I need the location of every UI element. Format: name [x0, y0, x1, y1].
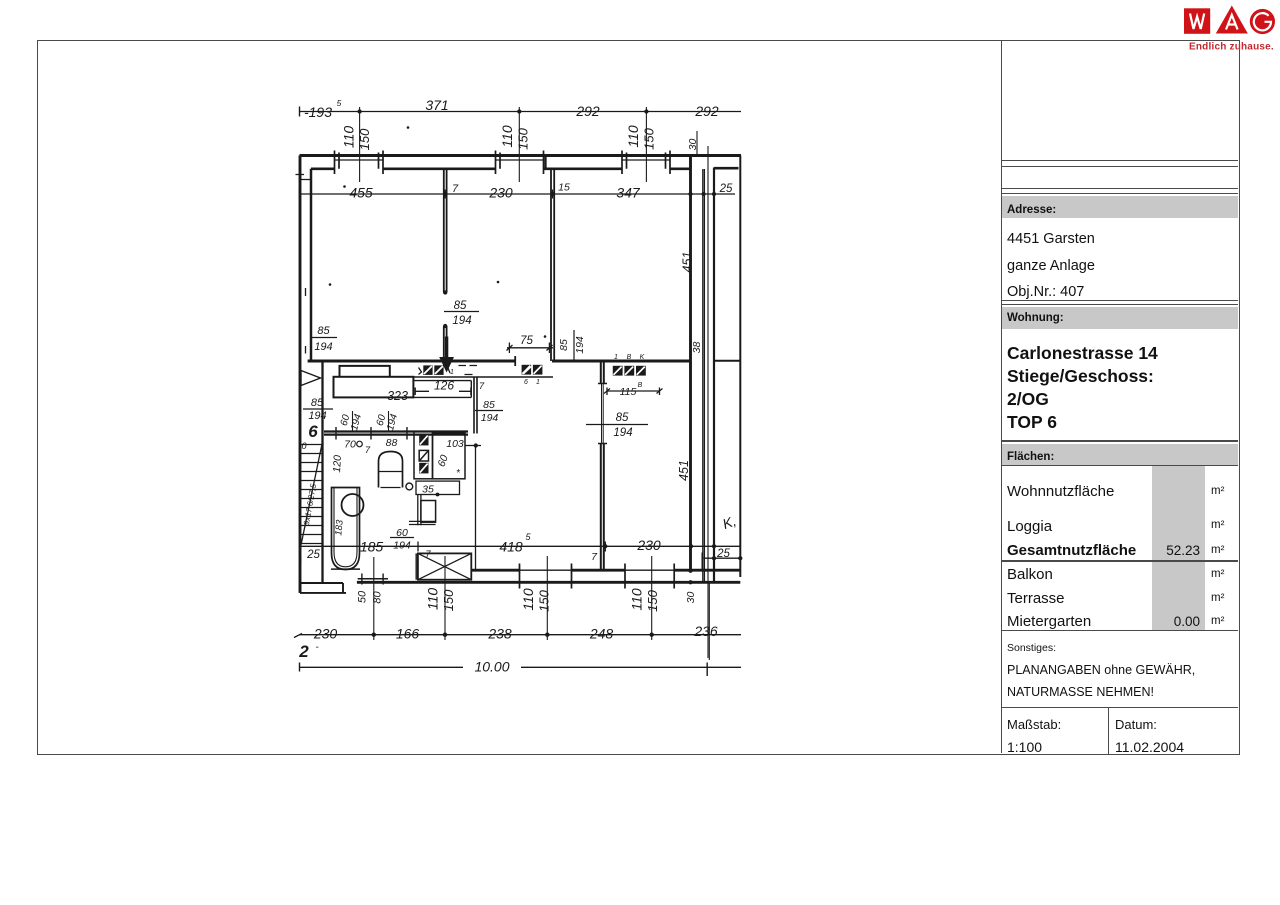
svg-text:451: 451	[681, 252, 695, 273]
svg-text:10.00: 10.00	[474, 659, 509, 675]
126 dim line	[415, 388, 471, 396]
svg-text:248: 248	[589, 626, 614, 642]
bottom window 5 ticks	[520, 564, 572, 589]
svg-text:50: 50	[357, 590, 369, 603]
svg-text:K,: K,	[720, 513, 738, 533]
living room left boundary thin	[475, 444, 477, 571]
corridor wall	[308, 360, 691, 363]
right wall 2	[713, 168, 715, 583]
svg-text:5: 5	[337, 98, 342, 108]
svg-text:126: 126	[434, 379, 454, 393]
wardrobe lower rectangle	[334, 377, 414, 398]
mid dim line (185/418/230)	[301, 545, 742, 547]
bottom total dim line (10.00)	[300, 666, 742, 668]
wardrobe upper rectangle	[340, 366, 390, 377]
svg-text:292: 292	[575, 103, 600, 119]
bottom-left wall block	[300, 583, 346, 593]
small 35 box	[416, 481, 460, 494]
svg-text:85: 85	[311, 397, 324, 409]
shaft trio C white diagonals	[614, 367, 645, 375]
svg-text:B: B	[627, 354, 632, 361]
top dim line dots	[360, 109, 647, 113]
svg-text:194: 194	[481, 412, 499, 424]
svg-text:70: 70	[344, 439, 356, 451]
fraction bar left pair2	[303, 408, 333, 410]
svg-text:230: 230	[636, 537, 661, 553]
window 2 sill line	[496, 159, 544, 161]
svg-text:371: 371	[425, 97, 448, 113]
right wall of rooms	[689, 156, 692, 571]
svg-text:6: 6	[308, 422, 318, 441]
svg-text:238: 238	[487, 626, 512, 642]
toilet crossbar	[379, 472, 403, 488]
svg-text:B: B	[638, 382, 643, 389]
bottom window 6 ticks	[625, 564, 674, 589]
WAG logo	[1180, 2, 1280, 54]
fraction bar wall A pair	[444, 311, 479, 313]
svg-text:15: 15	[558, 182, 570, 194]
Massstab / Datum	[1007, 717, 1061, 732]
bottom wall upper thick segments	[471, 569, 741, 572]
svg-text:0: 0	[301, 441, 306, 451]
fraction bar wall C pair	[586, 424, 648, 426]
shaft pair A white diagonals	[424, 366, 443, 374]
window 1 sill line	[335, 159, 384, 161]
shaft D square 1	[419, 435, 428, 446]
svg-text:230: 230	[313, 626, 338, 642]
shaft D square 2	[419, 450, 428, 461]
shaft pair A side marks	[419, 368, 451, 375]
bottom dim line 1	[300, 634, 742, 636]
Sonstiges section	[1007, 642, 1056, 654]
svg-text:418: 418	[499, 539, 523, 555]
door verticals below 35 box	[418, 495, 421, 526]
svg-text:110: 110	[425, 588, 441, 611]
bath lower walls	[331, 569, 388, 579]
door sill lines	[409, 521, 436, 524]
svg-text:-: -	[315, 642, 319, 653]
right 25 dim line	[704, 557, 741, 559]
Wohnung section	[1002, 307, 1238, 329]
svg-text:451: 451	[677, 460, 691, 481]
svg-text:150: 150	[516, 127, 531, 149]
svg-text:110: 110	[629, 588, 645, 611]
svg-text:1: 1	[614, 354, 618, 361]
svg-text:7: 7	[425, 549, 431, 560]
shaft column D rect	[414, 432, 433, 479]
interior dim line (455/230/347)	[300, 193, 736, 195]
bath top wall double line	[324, 432, 468, 435]
115 dim slashes	[604, 389, 663, 394]
svg-text:120: 120	[331, 455, 344, 473]
logo A triangle	[1216, 6, 1248, 34]
svg-text:85: 85	[454, 300, 467, 312]
top exterior wall inner line segments	[311, 167, 739, 170]
bath dot on 35 box	[436, 493, 440, 497]
bathtub inner line	[334, 488, 357, 567]
window 1 center dim vertical	[359, 107, 361, 182]
bath lower wall ticks	[362, 574, 383, 585]
sidebar header lines	[1001, 160, 1238, 161]
kitchen niche top line	[413, 376, 553, 378]
svg-text:88: 88	[386, 437, 398, 449]
svg-text:236: 236	[693, 623, 718, 639]
svg-text:1: 1	[536, 379, 540, 386]
loggia divider	[714, 360, 740, 362]
washbasin circle	[342, 494, 364, 516]
interior wall B (rooms 2/3)	[551, 169, 554, 361]
right double wall lines	[703, 169, 705, 582]
svg-text:347: 347	[616, 185, 641, 201]
left exterior wall outer	[299, 156, 302, 593]
outer drawing frame	[37, 40, 1240, 755]
svg-text:85: 85	[558, 339, 570, 351]
shaft D square 3	[419, 463, 428, 474]
mid dim tick at x418	[418, 542, 605, 552]
wall C door thin lines	[602, 384, 604, 444]
loggia outer edge	[739, 156, 741, 578]
svg-text:60: 60	[396, 527, 408, 539]
interior dim line dots	[445, 192, 714, 196]
door leaf rect	[421, 501, 436, 523]
svg-text:K: K	[640, 354, 645, 361]
svg-text:194: 194	[349, 412, 364, 431]
fraction bar tub 85-194 rotated pairs	[353, 411, 389, 432]
stair treads	[300, 445, 322, 544]
svg-text:230: 230	[488, 185, 513, 201]
svg-text:5: 5	[525, 532, 531, 542]
svg-text:194: 194	[308, 410, 326, 422]
bottom wall upper line	[471, 569, 741, 571]
svg-text:6: 6	[524, 379, 528, 386]
30 dim vertical top right	[696, 131, 698, 156]
top wall jog at window 2 right	[544, 156, 546, 169]
svg-text:7: 7	[452, 183, 459, 195]
svg-text:25: 25	[716, 548, 730, 560]
svg-text:194: 194	[385, 412, 400, 431]
svg-text:150: 150	[645, 589, 660, 611]
window 3 end ticks	[622, 151, 670, 175]
svg-text:38: 38	[691, 342, 703, 354]
svg-text:60: 60	[436, 453, 451, 468]
interior wall A (rooms 1/2)	[444, 169, 447, 361]
shaft D square 2 diagonal	[420, 451, 428, 460]
svg-text:85: 85	[317, 325, 330, 337]
svg-text:80: 80	[372, 591, 384, 604]
wall C (living / bedroom2)	[601, 361, 604, 570]
left 25 dim tick	[300, 556, 302, 564]
115 dim line room3	[607, 388, 660, 396]
scan speckles	[330, 128, 545, 337]
svg-text:194: 194	[452, 315, 471, 327]
left wall niche line + tick	[296, 175, 312, 180]
svg-text:455: 455	[349, 185, 373, 201]
svg-text:2: 2	[298, 642, 309, 661]
fraction bar corridor rotated pair	[573, 330, 575, 360]
top dim line end tick	[299, 107, 301, 117]
svg-text:7: 7	[365, 445, 371, 456]
svg-text:25: 25	[306, 549, 320, 561]
svg-text:30: 30	[685, 592, 697, 604]
corridor wall door jamb tick	[514, 356, 516, 366]
svg-text:166: 166	[396, 626, 420, 642]
svg-text:150: 150	[357, 128, 372, 150]
window 4/5/6 bottom tick marks on dim	[520, 566, 572, 574]
svg-text:35: 35	[422, 484, 434, 496]
right 25 dim dots	[714, 556, 740, 560]
logo W square	[1184, 8, 1210, 34]
left exterior wall inner	[310, 169, 313, 361]
svg-text:110: 110	[520, 588, 536, 611]
mid dim line left tick	[300, 542, 302, 552]
fraction bar room3 85-194	[570, 418, 600, 420]
bottom wall right corner piece	[701, 553, 703, 571]
svg-text:110: 110	[625, 125, 641, 148]
kitchen 75 dim line	[507, 347, 553, 349]
corridor dashes	[459, 366, 478, 375]
Flaechen section	[1001, 440, 1238, 442]
shaft D square 1 diagonal	[420, 436, 428, 445]
WC room rect	[433, 433, 466, 479]
window 2 center dim vertical	[518, 107, 520, 182]
wall A door end dots	[443, 293, 447, 327]
X-box left double edge	[415, 553, 417, 579]
svg-text:1: 1	[450, 369, 454, 376]
window 3 center dim vertical	[645, 107, 647, 182]
sidebar left edge	[1001, 40, 1002, 753]
mid dim line dots	[605, 544, 714, 548]
bathtub outline	[332, 488, 360, 570]
svg-text:150: 150	[537, 589, 552, 611]
svg-text:7: 7	[479, 381, 485, 392]
fraction bar bath 60-194 pair	[390, 537, 414, 539]
interior dim line left tick	[299, 189, 301, 199]
svg-text:85: 85	[616, 412, 629, 424]
WC dim stub line with dot	[465, 445, 481, 447]
door knob circle	[406, 483, 413, 490]
svg-text:75: 75	[520, 335, 533, 347]
stairwell right wall	[321, 361, 323, 583]
logo G circle	[1250, 9, 1275, 34]
svg-text:103: 103	[446, 438, 464, 450]
bottom total dim ticks	[300, 663, 708, 677]
fraction bar kitchen pair	[475, 410, 503, 412]
shaft pair B white diagonals	[522, 366, 541, 374]
svg-text:292: 292	[694, 103, 719, 119]
shaft squares trio C	[613, 366, 623, 376]
window 2 end ticks	[496, 151, 544, 175]
right long dim vertical	[707, 146, 709, 658]
bottom dim line 1 end dashes	[294, 634, 302, 638]
kitchen 75 dim ticks	[507, 343, 553, 354]
window 3 sill line	[622, 159, 670, 161]
svg-text:150: 150	[642, 127, 657, 149]
svg-text:194: 194	[574, 336, 586, 354]
X-box diagonals	[418, 553, 471, 579]
svg-text:194: 194	[314, 341, 332, 353]
bottom dim line 1 dots	[374, 632, 652, 636]
left wall upper dim ticks	[305, 288, 307, 354]
bath top wall ticks	[336, 427, 407, 440]
svg-text:150: 150	[441, 589, 456, 611]
bottom wall corner dots	[688, 571, 692, 583]
window 1 end ticks	[335, 151, 384, 175]
svg-text:110: 110	[341, 126, 357, 149]
kitchen niche shelf lines	[413, 381, 471, 398]
bottom dim verticals	[374, 556, 710, 660]
svg-text:185: 185	[360, 539, 384, 555]
toilet arch	[379, 452, 403, 488]
svg-text:7: 7	[591, 551, 598, 563]
top dimension line	[300, 111, 742, 113]
kitchen / living room left wall	[474, 377, 477, 434]
stair direction triangle	[301, 371, 321, 386]
bath 70 circle symbol	[357, 441, 363, 447]
svg-text:110: 110	[499, 125, 515, 148]
svg-text:194: 194	[613, 427, 632, 439]
fraction bar left pair1	[310, 337, 337, 339]
svg-text:183: 183	[333, 519, 345, 536]
svg-text:25: 25	[719, 183, 733, 195]
svg-text:323: 323	[387, 389, 408, 403]
svg-text:115: 115	[620, 386, 637, 398]
bottom wall lower line	[357, 581, 740, 584]
top exterior wall outer line	[300, 154, 742, 157]
svg-text:85: 85	[483, 399, 495, 411]
shaft squares pair A	[423, 365, 432, 375]
shaft squares pair B	[522, 365, 532, 375]
wall C door jamb ticks	[598, 384, 607, 444]
svg-text:194: 194	[393, 540, 411, 552]
interior dim line small ticks	[445, 190, 714, 199]
svg-text:-193: -193	[304, 104, 332, 120]
X-box (entrance mat)	[418, 553, 471, 579]
shaft D square 3 diagonal	[420, 464, 428, 473]
entrance arrow head	[439, 357, 454, 373]
Adresse section	[1002, 196, 1238, 218]
svg-text:*: *	[456, 468, 461, 479]
svg-text:30: 30	[687, 139, 699, 151]
stair diagonal	[301, 444, 322, 545]
entrance arrow shaft	[446, 337, 448, 359]
